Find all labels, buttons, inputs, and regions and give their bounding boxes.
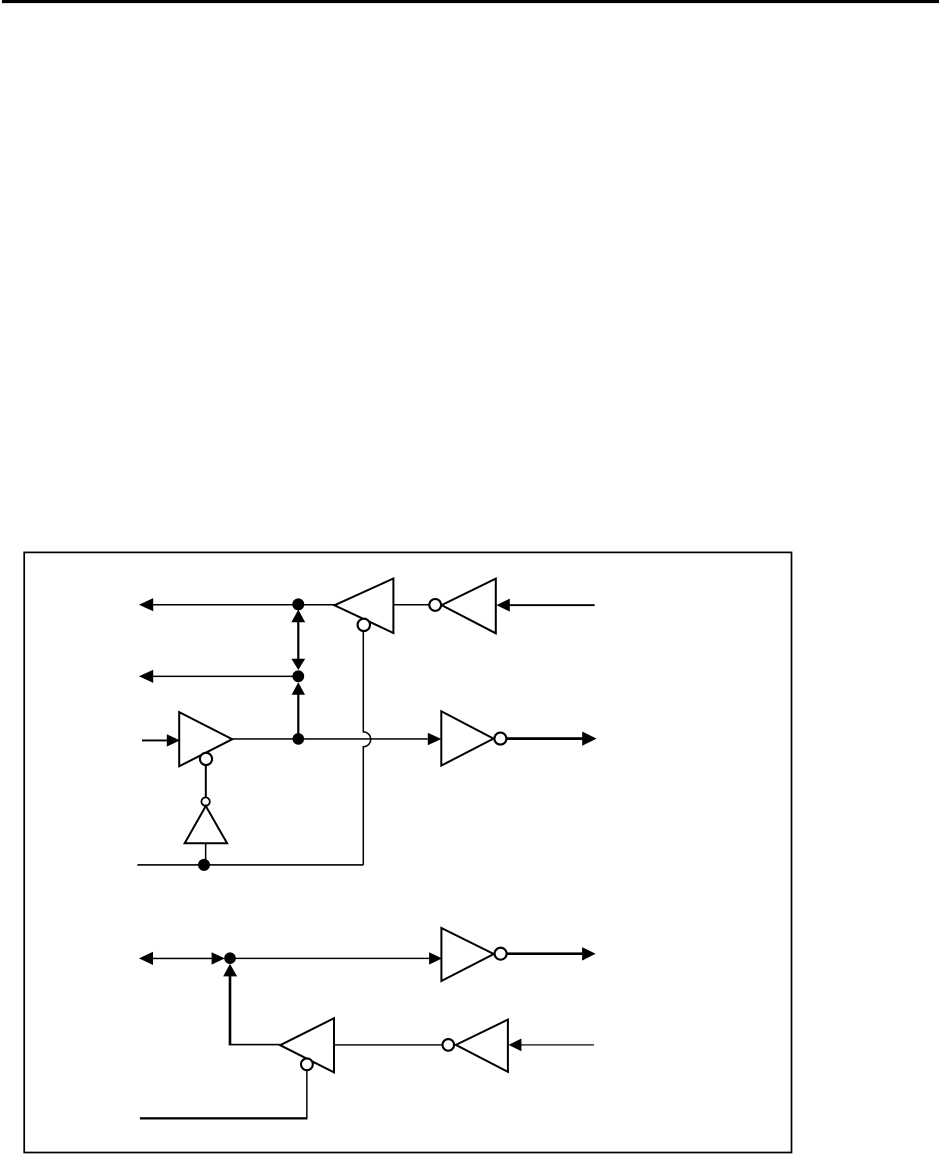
top rule [2, 0, 939, 3]
enable bubble on U3 [200, 753, 212, 765]
wire U1 base to U2 bubble [393, 604, 429, 606]
diagram frame [24, 552, 791, 1152]
wire: row4 output with arrow [507, 947, 596, 961]
wire: row1 left bus with arrow [139, 598, 335, 611]
enable rail vertical with hop over row3 [363, 631, 370, 865]
tri-state buffer U1 [334, 579, 393, 634]
node N2 junction [292, 670, 304, 682]
buffer U3 [179, 712, 232, 766]
arrow into U5 input [428, 733, 442, 746]
vertical arrow up into N5 [223, 964, 237, 1045]
wire: row2 left bus with arrow [139, 670, 293, 683]
enable rail horizontal [137, 864, 363, 866]
node N1 junction [292, 598, 304, 610]
enable stub bottom [140, 1117, 308, 1119]
output bubble of U2 [429, 599, 441, 611]
arrow into U6 input [429, 952, 442, 964]
inverter U4 pointing up [185, 806, 227, 843]
inverter U2 [442, 579, 496, 634]
node N5 junction [224, 952, 236, 964]
arrow into U2 input [496, 599, 509, 612]
tri-state buffer U7 [280, 1018, 334, 1072]
wire U4 base to rail [205, 843, 207, 865]
vertical arrow N3 to N2 [292, 682, 305, 739]
output bubble of U5 [494, 733, 506, 745]
wire: row3 from U3 output [232, 738, 427, 740]
wire: row5 input from right [521, 1044, 594, 1045]
inverter U6 [441, 928, 493, 981]
vertical double arrow N1 to N2 [291, 610, 305, 670]
node N3 junction [293, 733, 305, 745]
wire N5 to U6 [230, 958, 429, 959]
wire U7 bubble down [306, 1070, 308, 1117]
output bubble of U8 [443, 1039, 455, 1051]
inverter U8 [456, 1020, 508, 1072]
output bubble of U4 [201, 797, 209, 805]
wire U7 base to U8 bubble [334, 1044, 442, 1045]
wire: row1 input from right [509, 604, 595, 606]
inverter U5 [441, 711, 493, 765]
wire: row4 left bidirectional bus [139, 952, 225, 965]
wire: input with arrow into U3 [142, 734, 180, 746]
wire corner to U7 apex [229, 1044, 281, 1046]
wire: row3 output with arrow [506, 732, 596, 746]
output bubble of U6 [495, 948, 507, 960]
enable bubble on U7 [301, 1058, 313, 1070]
node N4 junction [198, 859, 210, 871]
arrow into U8 input [509, 1039, 522, 1052]
enable bubble on U1 [358, 619, 370, 631]
wire U3 bubble down to U4 [205, 765, 207, 798]
